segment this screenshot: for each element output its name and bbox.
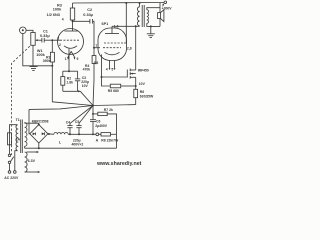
node C5 rail xyxy=(78,133,80,135)
dc rail to apex xyxy=(29,105,136,110)
node 10V xyxy=(135,85,137,87)
output tube V2 6P1 envelope xyxy=(98,28,127,61)
node V2 grid xyxy=(93,47,95,49)
wire cathode to R5 xyxy=(102,77,111,86)
node bridge minus xyxy=(48,133,50,135)
wire pot bottom to ground xyxy=(32,45,34,66)
potentiometer W1 100k xyxy=(31,33,39,46)
resistor R3 100k xyxy=(70,3,74,21)
node C6 R7 xyxy=(92,113,94,115)
svg-text:1/2 6N3: 1/2 6N3 xyxy=(47,13,60,17)
wire grid node to V1 grid xyxy=(52,39,60,41)
svg-text:10V: 10V xyxy=(82,84,89,88)
node screen rail xyxy=(125,2,127,4)
svg-text:A: A xyxy=(96,139,99,143)
svg-text:C1: C1 xyxy=(43,29,48,33)
wire V2 cathode down xyxy=(101,55,103,78)
OPT core xyxy=(142,5,144,27)
resistor R2 1.8k xyxy=(61,71,65,91)
svg-text:3,8: 3,8 xyxy=(94,61,99,65)
fuse F1 2A xyxy=(8,133,12,145)
svg-text:C4: C4 xyxy=(66,120,70,124)
T1 primary xyxy=(10,125,18,171)
svg-text:+300V: +300V xyxy=(162,7,173,11)
node cathode junction xyxy=(101,76,103,78)
ground return rail xyxy=(25,147,117,149)
wire bridge minus to L xyxy=(48,133,54,136)
capacitor C2 0.33u xyxy=(90,19,93,24)
node drain plate xyxy=(135,25,137,27)
AC terminal 2 xyxy=(14,171,17,174)
resistor R4 470k xyxy=(92,48,96,106)
svg-text:10V: 10V xyxy=(139,82,146,86)
svg-text:1.8k: 1.8k xyxy=(66,80,73,84)
inductor L xyxy=(54,133,68,135)
wire cathode network bottom to apex xyxy=(63,90,93,105)
output transformer T2 primary xyxy=(137,3,139,26)
top B+ rail wire xyxy=(73,2,165,5)
V2 plate xyxy=(105,26,119,33)
wire V1 cathode down xyxy=(68,49,70,72)
filter rail xyxy=(68,133,96,135)
resistor R5 680 xyxy=(110,84,135,88)
mechanical link dashed xyxy=(12,46,30,155)
V1 plate xyxy=(65,21,79,31)
svg-text:0.33μ: 0.33μ xyxy=(83,13,93,17)
svg-text:R5 680: R5 680 xyxy=(108,89,119,93)
svg-text:470k: 470k xyxy=(83,67,91,71)
wire C2 to V2 grid xyxy=(93,21,94,47)
capacitor C3 220u 10V xyxy=(75,71,80,91)
capacitor C5 220u xyxy=(76,106,93,135)
svg-text:L: L xyxy=(59,140,62,144)
wire ground column to apex xyxy=(52,66,93,106)
wire apex down xyxy=(92,106,94,114)
svg-text:C5: C5 xyxy=(75,120,79,124)
node V1 plate xyxy=(72,20,74,22)
resistor R7 2k xyxy=(93,112,117,134)
wire jack shield to ground xyxy=(23,34,34,66)
ground (input) xyxy=(30,67,38,71)
capacitor C1 0.33u xyxy=(42,38,44,43)
switch S1 xyxy=(8,154,14,163)
svg-text:2A: 2A xyxy=(16,138,21,142)
svg-text:AC: AC xyxy=(4,176,9,180)
wire bridge plus up xyxy=(28,109,31,133)
svg-text:4: 4 xyxy=(62,17,64,21)
capacitor C6 2u 400V xyxy=(90,114,96,134)
node secondary ground xyxy=(150,25,152,27)
wire bridge bottom down xyxy=(38,143,40,148)
wire V2 plate to OPT xyxy=(112,25,140,27)
V2 heater leads xyxy=(109,60,116,70)
OPT secondary xyxy=(147,8,160,27)
capacitor C4 220u xyxy=(67,106,93,135)
wire cathode network top xyxy=(63,70,78,72)
T1 core xyxy=(21,120,23,154)
svg-text:2,8: 2,8 xyxy=(127,47,132,51)
svg-text:9: 9 xyxy=(77,57,79,61)
node bridge top xyxy=(38,124,40,126)
V1 cathode xyxy=(64,46,77,49)
wire drain up to plate node xyxy=(135,26,137,70)
wire jack to pot top xyxy=(26,30,33,32)
wire wiper to C1 xyxy=(39,39,42,41)
wire switch to AC terminal xyxy=(9,164,11,171)
svg-text:3: 3 xyxy=(57,36,59,40)
V1 grid (dashed) xyxy=(60,39,80,41)
wire input ground bus xyxy=(34,65,53,67)
V2 cathode xyxy=(105,52,120,55)
wire C1 to grid node xyxy=(44,39,52,41)
svg-text:100k: 100k xyxy=(36,53,45,57)
svg-text:2μ400V: 2μ400V xyxy=(95,124,108,128)
svg-text:1: 1 xyxy=(65,57,67,61)
T1 HV secondary xyxy=(25,123,27,149)
ground (OPT secondary) xyxy=(147,26,155,37)
svg-text:390k: 390k xyxy=(43,59,51,63)
wire bridge top to secondary xyxy=(25,123,39,124)
svg-text:www.sharediy.net: www.sharediy.net xyxy=(96,161,142,167)
svg-text:R7 2k: R7 2k xyxy=(104,108,113,112)
svg-text:220V: 220V xyxy=(10,176,19,180)
svg-text:5: 5 xyxy=(111,67,113,71)
speaker LS xyxy=(158,3,164,27)
terminal node A xyxy=(96,133,99,136)
svg-text:400V×2: 400V×2 xyxy=(72,143,84,147)
MOSFET Q1 IRF450 xyxy=(127,69,135,79)
svg-text:0.33μ: 0.33μ xyxy=(40,34,50,38)
V1 heater xyxy=(67,52,76,60)
resistor R8 22k 7W xyxy=(99,133,117,136)
svg-text:4: 4 xyxy=(106,67,108,71)
node C4 rail xyxy=(69,133,71,135)
resistor R1 390k xyxy=(50,40,54,66)
svg-text:W1: W1 xyxy=(37,49,43,53)
input jack J1 xyxy=(20,27,27,34)
node OPT primary top xyxy=(139,2,141,4)
wire V2 cathode to gate xyxy=(102,76,128,78)
svg-text:IRF450: IRF450 xyxy=(138,68,149,72)
svg-text:100k: 100k xyxy=(53,7,62,11)
V2 screen grid (dashed) xyxy=(104,42,124,44)
node apex junction xyxy=(92,105,94,107)
svg-text:6.3V: 6.3V xyxy=(28,159,36,163)
svg-text:6P1: 6P1 xyxy=(102,22,109,26)
node R1 ground xyxy=(51,65,53,67)
wire plate node to C2 xyxy=(73,20,90,22)
svg-text:2: 2 xyxy=(59,43,61,47)
V2 control grid (dashed) xyxy=(103,47,121,49)
wire grid node into V2 xyxy=(94,47,100,49)
svg-text:630Ω5W: 630Ω5W xyxy=(140,94,154,98)
terminal +300V xyxy=(162,1,166,6)
node C6 rail xyxy=(92,133,94,135)
wire screen to top rail xyxy=(124,3,126,43)
resistor R6 630 5W xyxy=(134,86,138,105)
svg-text:C2: C2 xyxy=(87,8,92,12)
node bridge bottom ground xyxy=(38,147,40,149)
wire rail end down xyxy=(116,134,118,148)
node grid V1 xyxy=(51,39,53,41)
svg-text:T1: T1 xyxy=(16,118,20,122)
wire fuse to switch xyxy=(9,145,11,154)
AC terminal 1 xyxy=(8,171,11,174)
svg-text:7: 7 xyxy=(95,44,97,48)
wire source down xyxy=(135,77,137,86)
bridge rectifier KBPC3508 xyxy=(30,125,48,143)
node cathode xyxy=(68,70,70,72)
triode V1 1/2 6N3 envelope xyxy=(58,29,84,55)
T1 6.3V winding xyxy=(25,151,41,173)
